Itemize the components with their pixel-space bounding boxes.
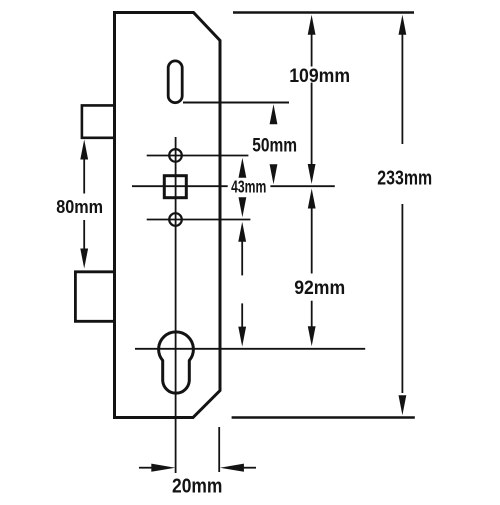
dim 20mm left stem <box>139 467 152 469</box>
latch bolt (top left) <box>82 105 114 137</box>
dim 50mm down arrow <box>270 164 278 184</box>
svg-text:43mm: 43mm <box>231 176 266 196</box>
top fixing hole C1 <box>169 149 182 162</box>
dim 109mm down arrow <box>308 164 316 184</box>
dim C2-cylinder down arrow <box>238 327 246 347</box>
lock case plate outline <box>115 13 221 418</box>
circle-2 center line <box>147 219 251 221</box>
vertical centerline <box>175 137 177 473</box>
dim 80mm lower stem <box>83 220 85 250</box>
dim 43mm up arrow <box>239 158 247 178</box>
svg-text:80mm: 80mm <box>56 196 103 217</box>
dim 233mm lower stem <box>401 204 403 393</box>
oval fixing slot <box>168 61 182 103</box>
dim 109mm lower stem <box>311 83 313 166</box>
circle-1 center line <box>147 155 249 157</box>
svg-text:20mm: 20mm <box>172 475 222 497</box>
dim 80mm upper stem <box>83 150 85 194</box>
cylinder center line <box>135 348 365 350</box>
deadbolt (bottom left) <box>75 272 114 322</box>
dim 92mm upper stem <box>311 199 313 274</box>
dim C2-cylinder lower stem <box>241 303 243 329</box>
svg-text:233mm: 233mm <box>377 168 432 190</box>
dim 92mm up arrow <box>308 189 316 209</box>
dim 92mm down arrow <box>308 326 316 346</box>
slot-bottom extension line <box>183 102 289 104</box>
spindle square <box>164 176 186 198</box>
bottom extension line <box>232 416 415 418</box>
dim 233mm down arrow <box>399 395 407 415</box>
top extension line <box>233 11 414 13</box>
dim 233mm upper stem <box>401 25 403 144</box>
svg-text:50mm: 50mm <box>252 134 297 156</box>
svg-text:109mm: 109mm <box>289 65 350 87</box>
spindle center line right <box>270 185 334 187</box>
dim 20mm right stem <box>243 467 256 469</box>
dim 20mm left-pointing arrow <box>220 464 244 472</box>
dim 43mm down arrow <box>239 197 247 217</box>
svg-text:92mm: 92mm <box>294 278 345 299</box>
dim C2-cylinder upper stem <box>241 232 243 275</box>
20mm right extension line <box>218 427 220 472</box>
dim 80mm up arrow <box>80 140 88 160</box>
spindle center line left <box>132 185 228 187</box>
euro cylinder hole <box>159 332 194 393</box>
dim 233mm up arrow <box>399 15 407 35</box>
dim 80mm down arrow <box>80 249 88 269</box>
dim 109mm up arrow <box>308 15 316 35</box>
dim 50mm up arrow <box>270 104 278 124</box>
dim 92mm lower stem <box>311 301 313 328</box>
dim 20mm right-pointing arrow <box>151 464 175 472</box>
bottom fixing hole C2 <box>169 213 182 226</box>
dim C2-cylinder up arrow <box>238 222 246 242</box>
dim 109mm upper stem <box>311 25 313 67</box>
